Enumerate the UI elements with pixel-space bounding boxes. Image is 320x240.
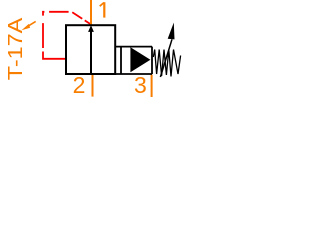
port 1 label [100,2,105,17]
check valve triangle [130,47,150,72]
leader arrow to label [22,21,36,30]
spring [153,50,180,77]
port 1 line [90,0,92,25]
wire drop at x=121 [120,47,122,74]
flow arrow inside box [88,25,94,74]
adjustment arrow shaft [160,39,172,77]
valve body box [66,25,115,74]
port 2 line [92,75,94,97]
svg-text:2: 2 [73,72,86,98]
wire right side of compartment [151,47,153,74]
adjustment arrow head [168,23,175,40]
pilot line (red dashed) [43,12,91,59]
wire top of check compartment [116,46,153,48]
svg-text:3: 3 [134,72,147,98]
wire bottom extension [116,73,153,75]
svg-text:T-17A: T-17A [5,17,27,80]
right compartment frame [116,47,153,74]
port 3 line [151,75,153,98]
